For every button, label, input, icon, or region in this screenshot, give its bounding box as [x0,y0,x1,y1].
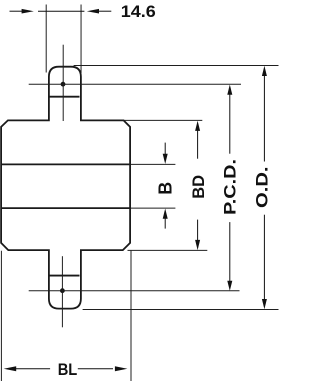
svg-text:14.6: 14.6 [121,2,156,21]
14.6 right extension line [80,5,82,74]
O.D. bottom extension line [83,309,279,311]
top roller center dot [61,82,66,87]
bore top extension line [131,163,175,165]
top tooth root line [49,96,80,98]
O.D. top extension line [74,65,279,67]
bottom roller center dot [60,288,65,293]
svg-text:O.D.: O.D. [253,166,272,208]
bore line bottom [1,207,130,209]
svg-text:P.C.D.: P.C.D. [220,159,239,215]
top tooth vertical centerline [62,45,64,121]
svg-text:BL: BL [58,360,78,379]
sprocket body outline with top and bottom teeth [1,67,130,309]
bottom tooth vertical centerline [61,256,63,327]
O.D. dimension line top segment with up arrow [262,66,267,76]
BD dimension line top segment with up arrow [195,121,200,131]
B dimension top arrow (points down) [164,143,166,156]
top pitch centerline / P.C.D. top extension [29,83,241,85]
BL dimension right arrow (points right) [78,368,113,370]
P.C.D. dimension line top segment with up arrow [227,85,232,95]
14.6 dimension left arrow [10,10,23,12]
14.6 dimension inner line [38,10,84,12]
O.D. dimension line bottom segment with down arrow [263,215,265,301]
BL dimension left arrow (points left) [4,366,17,371]
svg-text:B: B [155,182,175,195]
bore bottom extension line [131,207,175,209]
P.C.D. dimension line bottom segment with down arrow [229,222,231,282]
bottom tooth root line [49,275,80,277]
B dimension bottom arrow (points up) [163,209,168,219]
svg-text:BD: BD [189,175,208,199]
BL right extension line [130,251,132,381]
BD bottom extension line [128,249,208,251]
BD top extension line [124,119,203,121]
14.6 left extension line [45,5,47,73]
bore line top [1,163,130,165]
bottom pitch centerline / P.C.D. bottom extension [29,290,240,292]
14.6 dimension right arrow [87,9,99,14]
BL left extension line [0,251,2,381]
BD dimension line bottom segment with down arrow [197,220,199,241]
